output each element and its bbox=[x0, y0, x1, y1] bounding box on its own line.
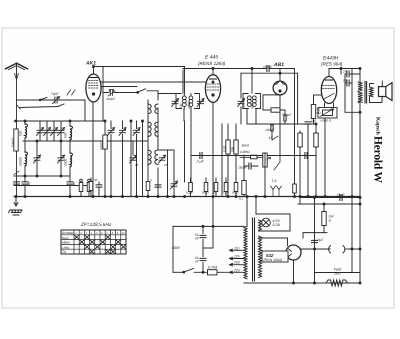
svg-text:(RES 964): (RES 964) bbox=[321, 62, 343, 67]
svg-text:60W: 60W bbox=[172, 246, 180, 250]
svg-text:0,75A: 0,75A bbox=[208, 266, 218, 270]
svg-text:(RGN 1064): (RGN 1064) bbox=[264, 258, 282, 262]
svg-text:50kΩ: 50kΩ bbox=[232, 191, 240, 195]
svg-text:50kΩ: 50kΩ bbox=[202, 191, 210, 195]
svg-text:500: 500 bbox=[250, 103, 254, 109]
svg-text:0,3A: 0,3A bbox=[273, 223, 281, 227]
svg-text:2 μF: 2 μF bbox=[196, 160, 205, 164]
svg-text:AB1: AB1 bbox=[273, 62, 284, 68]
svg-text:3kΩ: 3kΩ bbox=[334, 272, 341, 276]
svg-text:50kΩ: 50kΩ bbox=[242, 144, 250, 148]
svg-text:ZF=128,5 kHz: ZF=128,5 kHz bbox=[80, 222, 112, 228]
svg-text:Kurz: Kurz bbox=[62, 236, 69, 240]
svg-text:0,1μF: 0,1μF bbox=[222, 191, 229, 195]
svg-text:25: 25 bbox=[342, 79, 347, 83]
svg-text:8μF: 8μF bbox=[318, 238, 325, 242]
svg-text:125: 125 bbox=[234, 255, 240, 259]
svg-text:(RENS 1264): (RENS 1264) bbox=[198, 61, 226, 66]
svg-text:500: 500 bbox=[19, 130, 23, 136]
svg-text:50000: 50000 bbox=[11, 138, 15, 147]
svg-text:100pF: 100pF bbox=[263, 65, 273, 69]
svg-text:0,1: 0,1 bbox=[239, 197, 244, 201]
svg-text:1μF: 1μF bbox=[212, 191, 217, 195]
svg-text:110: 110 bbox=[234, 246, 240, 250]
svg-text:50μF: 50μF bbox=[337, 193, 345, 197]
svg-text:700pF: 700pF bbox=[282, 113, 292, 117]
svg-text:AK1: AK1 bbox=[85, 61, 96, 67]
svg-text:100μF: 100μF bbox=[265, 128, 275, 132]
svg-text:15: 15 bbox=[135, 163, 139, 167]
svg-text:150μF: 150μF bbox=[238, 166, 248, 170]
svg-text:70pF: 70pF bbox=[51, 92, 60, 96]
svg-text:kΩ: kΩ bbox=[317, 111, 322, 115]
svg-text:15: 15 bbox=[269, 136, 273, 140]
svg-text:50000: 50000 bbox=[99, 141, 103, 150]
svg-text:0,3MΩ: 0,3MΩ bbox=[240, 150, 250, 154]
svg-text:2000: 2000 bbox=[64, 159, 68, 167]
svg-text:50: 50 bbox=[94, 178, 98, 182]
svg-text:15: 15 bbox=[164, 163, 168, 167]
svg-text:+1000 Ω: +1000 Ω bbox=[320, 119, 332, 123]
svg-text:220: 220 bbox=[233, 268, 240, 272]
svg-text:500: 500 bbox=[64, 132, 68, 138]
svg-text:Lang: Lang bbox=[62, 245, 69, 249]
svg-text:50k: 50k bbox=[231, 146, 235, 152]
svg-text:110pF: 110pF bbox=[106, 97, 116, 101]
svg-text:150: 150 bbox=[234, 261, 240, 265]
svg-text:Kapsch: Kapsch bbox=[375, 117, 381, 135]
svg-text:Mittel: Mittel bbox=[62, 241, 70, 245]
svg-text:500: 500 bbox=[241, 103, 245, 109]
svg-text:25: 25 bbox=[342, 70, 347, 74]
svg-text:0,1μF: 0,1μF bbox=[186, 191, 193, 195]
svg-text:20000: 20000 bbox=[19, 157, 23, 167]
svg-text:TA: TA bbox=[62, 250, 66, 254]
svg-text:T.A: T.A bbox=[272, 179, 278, 183]
svg-text:Herold W: Herold W bbox=[372, 136, 384, 184]
svg-text:2000: 2000 bbox=[187, 102, 191, 110]
svg-text:E 445: E 445 bbox=[205, 55, 218, 61]
svg-text:500: 500 bbox=[179, 103, 183, 109]
svg-text:0,25: 0,25 bbox=[223, 146, 227, 152]
svg-text:Schalter: Schalter bbox=[62, 231, 75, 235]
